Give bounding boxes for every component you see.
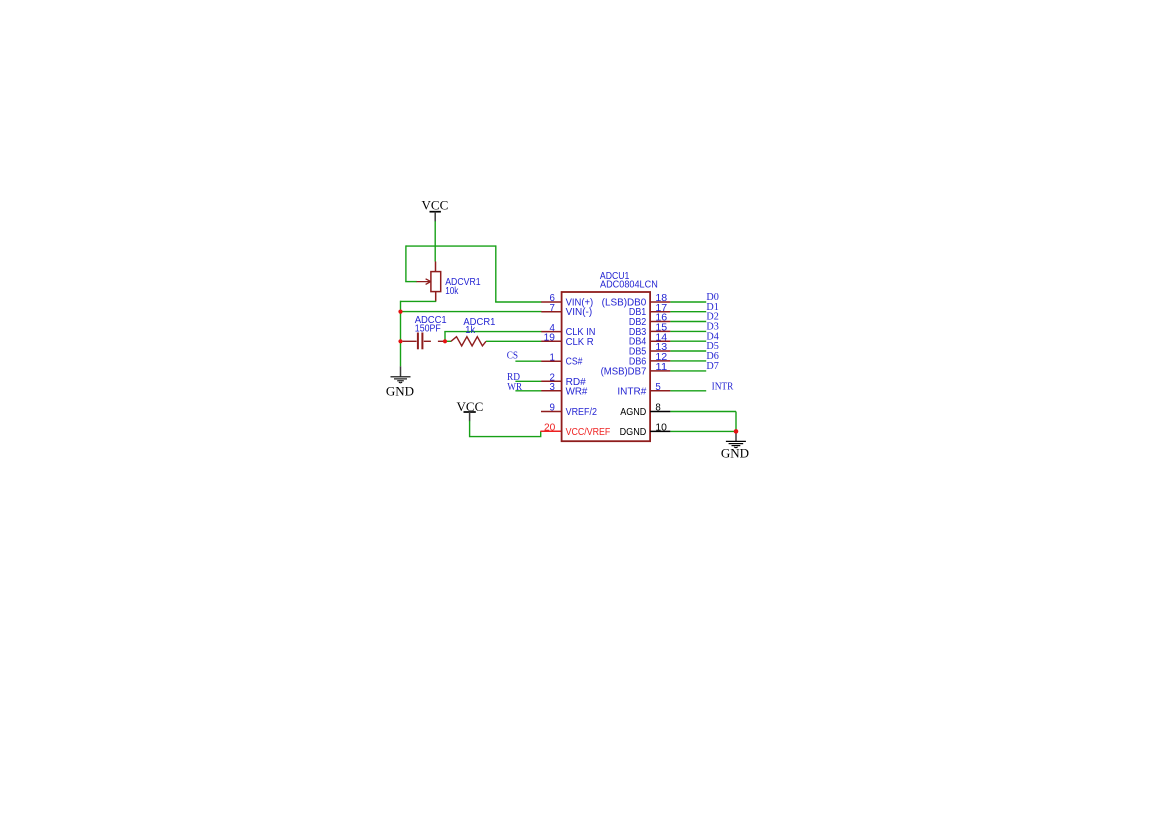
svg-text:GND: GND [721,446,749,461]
left pin names [566,298,611,438]
junction on VIN(-) net [398,310,402,314]
svg-text:VCC: VCC [422,198,449,213]
pin 5 stub [650,390,670,392]
wire to wiper arrow [405,281,417,283]
pin 1 stub [541,360,561,362]
junction at GND (right) [734,429,739,434]
wire VCC down to ADCVR1 [434,221,436,261]
power symbol VCC (lower) [457,399,484,421]
junction capacitor/resistor node [443,339,447,343]
wire net D3 [670,330,706,332]
wire right vertical to VIN(+) [495,245,497,302]
pin 6 stub [541,301,561,303]
data bus wires D0-D7 [670,302,706,391]
svg-text:CLK R: CLK R [566,337,594,348]
pin 9 stub [541,411,562,413]
pin 15 stub [650,330,670,332]
wire net D7 [670,370,706,372]
pin 7 stub [541,311,561,313]
capacitor ADCC1 [403,333,444,350]
right pin numbers [655,293,667,433]
svg-text:INTR: INTR [712,382,734,393]
pin 13 stub [650,350,670,352]
wire node up to CLK IN [444,332,446,342]
power symbol VCC (top) [422,198,449,222]
pin 18 stub [650,301,670,303]
pin 8 stub [650,411,670,413]
svg-text:11: 11 [655,362,667,373]
svg-text:GND: GND [386,384,414,399]
pin 10 stub [650,430,670,432]
left pin numbers [544,293,556,433]
wire net CS [515,360,541,362]
net labels D0-D7 [706,292,733,392]
wire net D4 [670,340,706,342]
right pin stubs [650,302,670,391]
pin 11 stub [650,370,670,372]
left pin stubs [541,302,562,412]
pin 17 stub [650,311,670,313]
wire to pin 7 VIN(-) [401,311,542,313]
wire left vertical bus down to GND [400,301,402,367]
wire net D0 [670,301,706,303]
potentiometer ADCVR1 [417,262,441,302]
right pin names [601,298,647,438]
ground symbol GND (right) [721,431,749,460]
wire DGND to GND [670,430,736,432]
wire to pin 6 VIN(+) [495,301,541,303]
svg-text:10k: 10k [445,286,458,297]
svg-text:9: 9 [550,403,555,414]
wire net INTR [670,390,706,392]
svg-text:CS#: CS# [566,357,583,368]
pin 3 stub [541,390,561,392]
wire to pin 4 CLK IN [444,331,541,333]
svg-text:(MSB)DB7: (MSB)DB7 [601,366,647,377]
wire node to resistor ADCR1 [445,340,451,342]
wire net D5 [670,350,706,352]
svg-text:INTR#: INTR# [617,386,647,397]
wire AGND to GND [670,411,736,413]
pin 19 stub [541,340,561,342]
wire left vertical to wiper [405,245,407,281]
ground symbol GND (left) [386,366,414,398]
wire net D2 [670,321,706,323]
svg-text:10: 10 [655,423,667,434]
svg-text:19: 19 [544,333,555,344]
wire net RD [515,380,541,382]
svg-text:DGND: DGND [620,427,647,438]
svg-text:WR#: WR# [566,386,588,397]
svg-text:7: 7 [550,303,555,314]
svg-text:3: 3 [550,382,555,393]
svg-text:20: 20 [544,423,556,434]
svg-text:AGND: AGND [620,407,646,418]
wire net D6 [670,360,706,362]
svg-text:CS: CS [507,351,519,362]
wire AGND vertical [735,412,737,432]
wire net WR [515,390,541,392]
resistor ADCR1 [451,337,486,346]
svg-text:150PF: 150PF [415,323,441,334]
wire resistor bottom horizontal [401,300,437,302]
wire net D1 [670,311,706,313]
svg-text:8: 8 [655,403,660,414]
pin 2 stub [541,380,561,382]
svg-text:D7: D7 [706,361,718,372]
svg-text:1: 1 [550,352,555,363]
pin 14 stub [650,340,670,342]
pin 20 stub (red) [540,430,561,432]
wire VCC to pin 20 [470,421,541,437]
pin 12 stub [650,360,670,362]
pin 16 stub [650,321,670,323]
wire resistor to pin 19 CLK R [486,340,542,342]
svg-text:VCC/VREF: VCC/VREF [566,427,611,438]
wire top horizontal loop [406,245,496,247]
svg-text:VIN(-): VIN(-) [566,307,593,318]
svg-text:1k: 1k [465,325,475,336]
svg-text:VREF/2: VREF/2 [566,407,597,418]
svg-text:5: 5 [655,382,660,393]
svg-text:ADC0804LCN: ADC0804LCN [600,280,658,291]
IC ADCU1 box [562,292,651,441]
junction left bus at capacitor [398,339,402,343]
pin 4 stub [541,331,561,333]
